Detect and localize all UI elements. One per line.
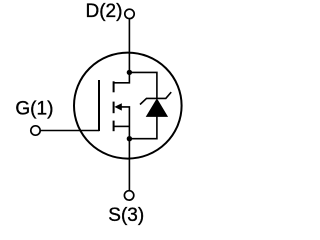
wire source stub <box>114 125 130 127</box>
junction dot source node <box>127 136 132 141</box>
terminal S pin 3 <box>124 191 133 200</box>
svg-text:S(3): S(3) <box>108 205 144 226</box>
terminal D pin 2 <box>125 9 134 18</box>
transistor envelope circle Q1 <box>74 53 182 159</box>
wire drain lead <box>114 19 130 83</box>
zener diode D1 anode triangle <box>147 99 168 116</box>
svg-text:D(2): D(2) <box>86 1 123 22</box>
zener diode D1 cathode bar <box>140 92 171 104</box>
svg-text:G(1): G(1) <box>15 99 53 120</box>
MOSFET Q1 gate bar <box>98 80 100 131</box>
wire body-to-source and source lead <box>121 107 129 190</box>
terminal G pin 1 <box>31 126 40 135</box>
wire gate lead <box>41 130 99 132</box>
MOSFET Q1 body arrow <box>114 103 121 110</box>
junction dot drain node <box>127 70 132 75</box>
MOSFET Q1 channel segment body <box>113 102 115 114</box>
MOSFET Q1 channel segment source <box>113 121 115 132</box>
wire diode bottom branch <box>129 116 157 139</box>
wire diode top branch <box>129 72 157 98</box>
MOSFET Q1 channel segment drain <box>113 81 115 92</box>
